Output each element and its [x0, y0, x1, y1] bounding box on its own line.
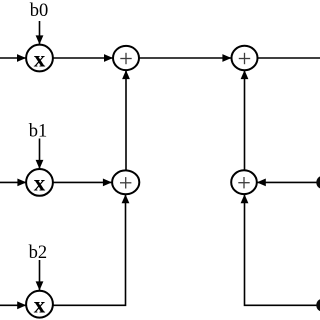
- svg-text:b2: b2: [29, 243, 48, 263]
- svg-text:b0: b0: [30, 1, 49, 21]
- wire input row3 left: [0, 304, 26, 306]
- adder A3: [112, 170, 139, 194]
- wire feedback row2 from right into A4: [257, 181, 320, 183]
- adder A4: [231, 170, 257, 194]
- wire A1 to adder A2: [139, 57, 231, 59]
- multiplier X3: [26, 291, 53, 318]
- wire output row1 right: [258, 57, 320, 59]
- wire X3 right then up into A3: [53, 195, 126, 306]
- wire X1 to adder A1: [53, 57, 113, 59]
- svg-text:x: x: [34, 293, 46, 318]
- svg-text:x: x: [34, 171, 46, 196]
- adder A2: [232, 46, 258, 70]
- wire input row1 left: [0, 57, 26, 59]
- wire from right multiplier left then up into A4: [245, 195, 318, 306]
- multiplier (cropped) right row2: [316, 176, 320, 189]
- svg-text:x: x: [34, 46, 46, 71]
- wire b0 to multiplier X1: [39, 21, 41, 44]
- multiplier X2: [26, 169, 53, 196]
- wire input row2 left: [0, 181, 26, 183]
- adder A1: [113, 46, 139, 70]
- wire b2 to multiplier X3: [39, 260, 41, 290]
- wire A4 up to A2: [244, 71, 246, 171]
- wire X2 to adder A3: [53, 181, 112, 183]
- multiplier X1: [26, 45, 53, 72]
- wire b1 to multiplier X2: [39, 139, 41, 169]
- wire A3 up to A1: [125, 71, 127, 171]
- multiplier (cropped) right row3: [316, 299, 320, 312]
- svg-text:b1: b1: [29, 122, 48, 142]
